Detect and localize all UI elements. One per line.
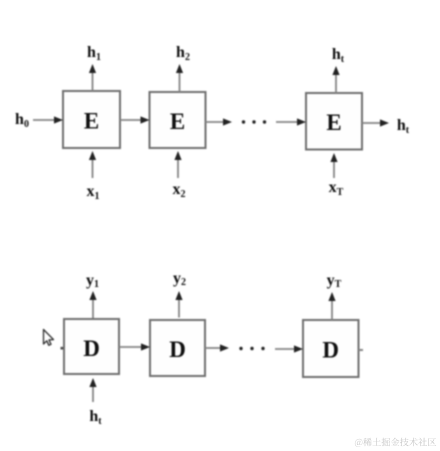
svg-text:D: D [322, 338, 339, 363]
ellipsis dots bottom row [239, 347, 264, 350]
encoder box E2 [150, 92, 206, 148]
svg-text:ht: ht [397, 117, 410, 136]
svg-text:x2: x2 [173, 181, 186, 200]
wire stub right of D3 [359, 349, 364, 351]
wire x2 up into E2 [174, 151, 181, 178]
svg-text:D: D [169, 337, 186, 362]
wire E3 to ht output [362, 119, 389, 126]
encoder box E1 [63, 91, 120, 148]
wire D1 up to y1 [89, 291, 96, 318]
wire D2 up to y2 [175, 291, 182, 318]
svg-text:y1: y1 [86, 272, 99, 290]
wire D1 to D2 [119, 343, 150, 350]
wire x1 up into E1 [89, 151, 96, 178]
wire D3 up to yT [328, 292, 335, 320]
wire dots to E3 [276, 118, 306, 125]
wire E3 up to ht [332, 66, 339, 93]
wire E1 to E2 [120, 116, 150, 123]
wire stub left of D1 [61, 347, 65, 350]
wire xT up into E3 [330, 153, 337, 178]
decoder box D3 [303, 320, 359, 377]
wire E2 to dots [206, 118, 233, 125]
ellipsis dots top row [242, 120, 266, 123]
svg-text:h1: h1 [87, 44, 101, 63]
svg-text:y2: y2 [173, 270, 186, 288]
svg-text:E: E [170, 109, 185, 134]
svg-text:x1: x1 [87, 183, 100, 202]
wire ht up into D1 [89, 378, 96, 402]
decoder box D1 [64, 319, 119, 374]
wire E2 up to h2 [176, 64, 183, 92]
wire dots to D3 [275, 345, 303, 352]
svg-text:D: D [83, 336, 100, 361]
wire D2 to dots [205, 344, 229, 351]
svg-text:ht: ht [89, 408, 102, 427]
mouse cursor [44, 330, 54, 346]
svg-text:E: E [326, 110, 341, 135]
svg-text:ht: ht [332, 46, 345, 65]
decoder box D2 [150, 320, 205, 376]
svg-text:h2: h2 [176, 44, 190, 63]
svg-text:yT: yT [327, 272, 342, 290]
wire E1 up to h1 [89, 64, 96, 91]
watermark juejin community [355, 438, 436, 447]
svg-text:h0: h0 [15, 111, 29, 130]
svg-text:E: E [84, 109, 99, 134]
svg-text:xT: xT [329, 179, 344, 198]
wire h0 to E1 [33, 116, 63, 123]
encoder box E3 [306, 93, 362, 150]
